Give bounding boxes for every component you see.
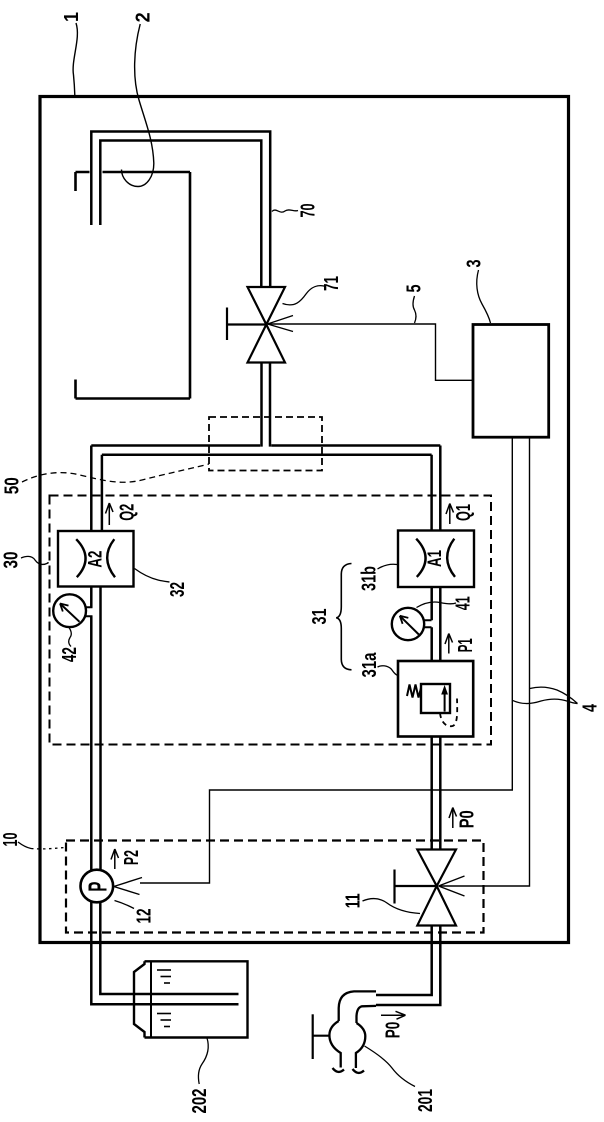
control line from controller 3 to pump 12: [114, 437, 513, 894]
measuring unit dashed box 30: [50, 496, 492, 745]
svg-text:201: 201: [415, 1089, 437, 1112]
pipe down-left to flow sensor A2: [91, 446, 102, 532]
leader line for 12: [115, 901, 135, 909]
tank 202 liquid level marks upper: [157, 970, 171, 983]
flow sensor A1 (31b): [398, 531, 474, 588]
leader line for 3: [477, 270, 491, 323]
valve 71: [248, 287, 286, 363]
leader line for 71: [283, 286, 327, 305]
pipe from valve 11 down to faucet 201: [376, 926, 440, 1006]
svg-text:42: 42: [59, 647, 81, 662]
valve 11: [417, 850, 456, 926]
svg-text:P1: P1: [455, 638, 477, 652]
controller box 3: [473, 325, 549, 438]
supply unit dashed box 10: [66, 841, 484, 933]
pressure gauge 41: [392, 608, 432, 640]
svg-text:31b: 31b: [359, 566, 381, 591]
faucet 201: [329, 991, 376, 1073]
regulator 31a box: [398, 661, 473, 737]
brace for group 31: [336, 564, 351, 670]
faucet flow arrow pointing right: [381, 1011, 406, 1019]
pipe from valve 71 down to T junction: [262, 363, 271, 447]
flow arrow P1: [445, 634, 453, 654]
flow arrow Q1: [446, 504, 454, 525]
control line from controller 3 to valve 11: [439, 437, 530, 896]
svg-text:32: 32: [167, 582, 189, 597]
svg-text:12: 12: [134, 909, 156, 924]
leader line for 2 ending in loop at tank rim: [122, 24, 154, 187]
svg-text:10: 10: [0, 833, 22, 847]
svg-text:11: 11: [342, 893, 364, 908]
svg-text:31a: 31a: [359, 652, 381, 678]
pipe down-right to flow sensor A1: [432, 446, 441, 531]
leader line for 1: [73, 23, 77, 95]
valve 11 stem and handle: [395, 870, 437, 904]
leader line for 202: [199, 1038, 209, 1084]
regulator 31a dashed pilot line: [440, 699, 457, 727]
svg-text:2: 2: [132, 12, 154, 22]
svg-text:Q1: Q1: [453, 504, 475, 521]
svg-text:P: P: [82, 882, 112, 892]
svg-text:202: 202: [189, 1089, 211, 1114]
svg-text:30: 30: [0, 552, 22, 569]
svg-text:71: 71: [321, 276, 343, 291]
leader line for 31b: [378, 564, 398, 569]
svg-text:P0: P0: [382, 1022, 404, 1039]
pipe below pump to tank 202: [91, 902, 238, 1004]
leader line for 201: [365, 1046, 416, 1087]
svg-text:70: 70: [298, 204, 320, 218]
svg-text:P2: P2: [121, 850, 143, 865]
flow sensor A2 venturi arcs: [76, 539, 115, 577]
pipe below 31a to valve 11: [432, 737, 441, 850]
leader line for 30: [21, 556, 48, 564]
dashed leader line for 50: [22, 464, 209, 482]
svg-text:A2: A2: [86, 551, 107, 568]
pressure gauge 42: [53, 594, 92, 627]
tank 202: [134, 961, 248, 1037]
tank 2 outline: [76, 172, 191, 399]
dashed leader line for 10: [18, 842, 31, 849]
leader line for 42: [69, 628, 72, 647]
flow sensor A2: [58, 531, 134, 587]
junction dashed box (node 50): [209, 417, 322, 471]
svg-text:Q2: Q2: [116, 504, 138, 521]
svg-text:31: 31: [309, 609, 331, 625]
svg-text:3: 3: [464, 260, 486, 268]
leader line for 11: [363, 899, 421, 914]
valve 71 stem and handle: [227, 308, 266, 341]
T pipe manifold (horizontal): [91, 446, 440, 455]
svg-text:4: 4: [580, 703, 602, 712]
svg-text:50: 50: [1, 477, 23, 494]
leader line for 5: [413, 296, 416, 323]
pipe between A1 and regulator 31a: [432, 587, 441, 661]
regulator 31a internal arrow: [441, 685, 448, 712]
control line 5 from valve 71 to controller 3: [268, 316, 474, 381]
svg-text:A1: A1: [425, 550, 446, 567]
flow arrow Q2: [106, 503, 114, 525]
regulator 31a inner valve rect: [421, 684, 450, 713]
flow sensor A1 venturi arcs: [416, 539, 455, 577]
flow arrow P0: [449, 808, 457, 829]
leader line for 41: [417, 602, 457, 607]
tank 202 liquid level marks lower: [157, 1014, 171, 1027]
leader line for 32: [135, 569, 170, 583]
svg-text:5: 5: [404, 285, 426, 293]
svg-text:P0: P0: [456, 810, 478, 828]
leader line for 70: [272, 210, 298, 212]
flow arrow P2: [111, 849, 119, 869]
svg-text:1: 1: [61, 12, 83, 22]
pump 12: [81, 870, 114, 903]
pipe 70 (tank 2 to valve 71): [91, 132, 270, 288]
pipe below A2 to pump: [91, 587, 100, 871]
wavy leader line for 4: [530, 687, 578, 703]
regulator 31a spring: [407, 685, 421, 698]
apparatus outline box 1: [40, 97, 569, 943]
leader line for 31a: [378, 666, 399, 676]
faucet 201 handle: [313, 1014, 330, 1059]
